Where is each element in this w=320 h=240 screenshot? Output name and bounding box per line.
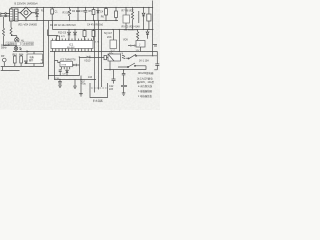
svg-text:R7 R8 VD7: R7 R8 VD7 (122, 10, 135, 13)
svg-text:水位控制: 水位控制 (23, 42, 34, 46)
svg-text:223: 223 (109, 88, 114, 91)
svg-text:贮水容器: 贮水容器 (93, 99, 103, 103)
svg-text:B 220V/9V 1N4005x4: B 220V/9V 1N4005x4 (15, 3, 39, 6)
svg-text:a 水位探头线: a 水位探头线 (138, 84, 153, 88)
svg-text:c 电热器负载: c 电热器负载 (138, 94, 152, 98)
svg-text:VD10: VD10 (84, 59, 91, 62)
svg-text:R3 1k: R3 1k (63, 12, 70, 15)
svg-text:R14: R14 (19, 54, 24, 57)
svg-text:470u: 470u (81, 82, 87, 85)
svg-text:SQ 4x7: SQ 4x7 (104, 32, 113, 35)
svg-text:R10 C6: R10 C6 (58, 32, 67, 35)
svg-text:R2 1M C2 10u VD5 6V2: R2 1M C2 10u VD5 6V2 (50, 24, 76, 27)
svg-text:R9 C5 VD8 4148: R9 C5 VD8 4148 (122, 25, 141, 28)
svg-text:50Hz: 50Hz (1, 46, 7, 49)
svg-text:KD-302: KD-302 (67, 47, 75, 49)
svg-text:注:J为12V继电: 注:J为12V继电 (137, 76, 153, 80)
svg-text:12V: 12V (136, 50, 140, 52)
svg-text:器220V、10A型: 器220V、10A型 (137, 80, 155, 84)
svg-text:2CK: 2CK (107, 36, 112, 39)
svg-text:R13: R13 (13, 54, 18, 57)
svg-text:RP: RP (1, 55, 5, 58)
svg-text:IC2 TWH8778: IC2 TWH8778 (60, 58, 76, 61)
svg-text:JZC23F继电器: JZC23F继电器 (138, 71, 154, 75)
svg-text:VD9: VD9 (123, 39, 128, 42)
svg-text:IC1: IC1 (69, 43, 74, 47)
svg-text:10k 4148x2 6V: 10k 4148x2 6V (124, 30, 139, 32)
svg-text:C4 47u R6 1k0: C4 47u R6 1k0 (87, 24, 104, 27)
svg-text:VD1~VD4 1N4005: VD1~VD4 1N4005 (18, 25, 38, 27)
svg-text:JK-1 10A: JK-1 10A (139, 60, 149, 63)
svg-text:103: 103 (88, 76, 93, 79)
svg-text:b 接触器线圈: b 接触器线圈 (138, 89, 153, 93)
